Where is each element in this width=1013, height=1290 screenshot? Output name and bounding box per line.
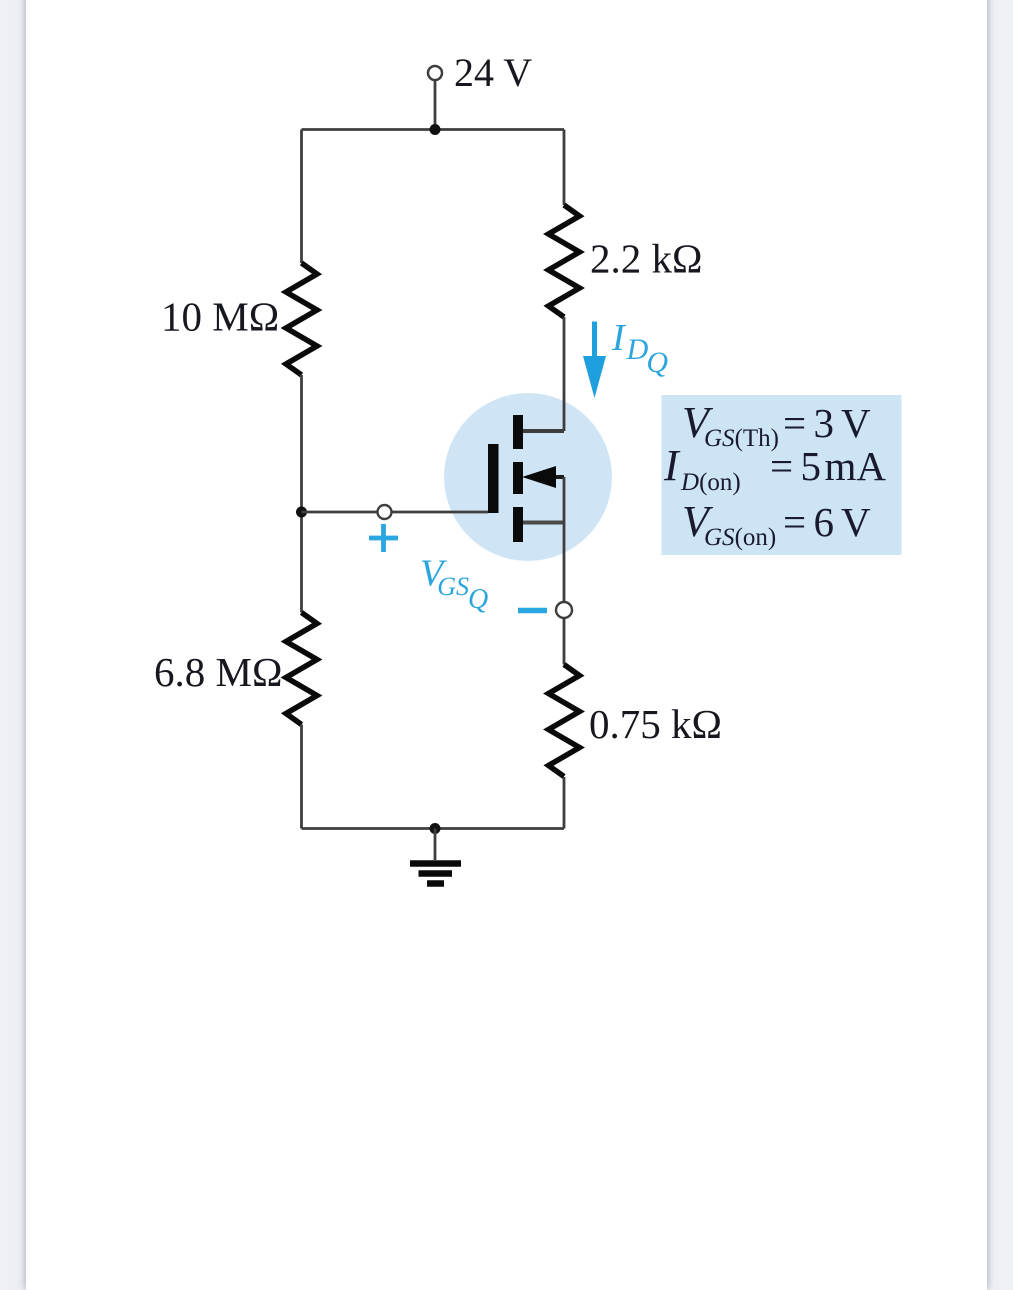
wire: drain lead xyxy=(563,317,566,431)
ground xyxy=(410,829,461,884)
wire: left rail middle xyxy=(300,375,303,613)
label IDQ xyxy=(611,317,668,379)
node: Vdd junction dot xyxy=(430,124,441,135)
wire: 24V stub xyxy=(434,80,437,130)
label 24 V xyxy=(454,50,532,95)
wire: left rail upper xyxy=(300,130,303,264)
plus sign (blue) xyxy=(369,524,398,552)
transistor Q1 gate bar xyxy=(488,444,499,513)
wire: left rail lower xyxy=(300,725,303,829)
label 0.75 kohm xyxy=(589,701,722,747)
wire: top rail xyxy=(302,128,565,131)
resistor RD 2.2 kohm xyxy=(549,205,580,317)
terminal source probe (open circle) xyxy=(556,602,572,618)
wire: source connection xyxy=(523,521,564,525)
info text line ID(on) xyxy=(663,441,886,496)
node: ground junction dot xyxy=(430,823,441,834)
wire: below source probe xyxy=(563,619,566,665)
minus sign (blue) xyxy=(518,608,547,614)
svg-text:IDQ: IDQ xyxy=(611,317,668,379)
resistor RS 0.75 kohm xyxy=(549,665,580,777)
info text line VGS(on) xyxy=(682,497,871,551)
info text line VGS(Th) xyxy=(682,398,871,452)
terminal 24V (open circle) xyxy=(428,66,442,80)
wire: bottom rail xyxy=(302,827,565,830)
MOSFET highlight circle xyxy=(444,393,612,561)
transistor Q1 source bar xyxy=(513,507,523,542)
resistor R1 10 Mohm xyxy=(286,263,317,375)
transistor Q1 substrate arrow xyxy=(522,466,564,488)
label VGSQ xyxy=(420,553,488,616)
label 2.2 kohm xyxy=(590,236,702,282)
resistor R2 6.8 Mohm xyxy=(286,613,317,725)
current arrow IDQ xyxy=(583,322,606,399)
wire: right rail upper xyxy=(563,130,566,206)
label 6.8 Mohm xyxy=(154,649,282,695)
transistor Q1 channel bar xyxy=(513,462,523,494)
label 10 Mohm xyxy=(161,294,279,340)
terminal gate probe (open circle) xyxy=(378,505,392,519)
svg-text:2.2 kΩ: 2.2 kΩ xyxy=(590,236,702,282)
info box background xyxy=(662,395,902,555)
transistor Q1 drain bar xyxy=(513,415,523,449)
wire: gate lead xyxy=(302,511,489,514)
svg-text:10 MΩ: 10 MΩ xyxy=(161,294,279,340)
svg-text:24 V: 24 V xyxy=(454,50,532,95)
node: gate divider junction dot xyxy=(296,507,307,518)
wire: drain connection xyxy=(523,429,564,433)
svg-text:6.8 MΩ: 6.8 MΩ xyxy=(154,649,282,695)
svg-text:VGSQ: VGSQ xyxy=(420,553,488,616)
wire: right rail lower xyxy=(563,777,566,829)
svg-text:0.75 kΩ: 0.75 kΩ xyxy=(589,701,722,747)
wire: source lead xyxy=(563,477,566,602)
